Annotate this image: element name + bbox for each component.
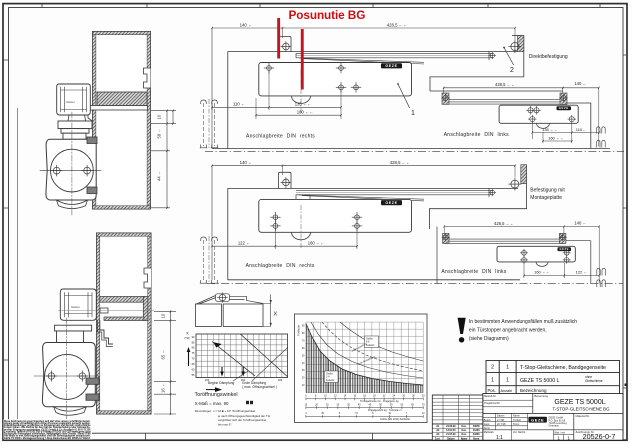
svg-text:122 ←: 122 ←: [238, 241, 250, 246]
svg-text:GEZE TS 5000 L: GEZE TS 5000 L: [520, 378, 560, 384]
svg-text:180: 180: [278, 378, 283, 382]
hinge detail with X dimension: [195, 292, 277, 326]
svg-text:Norm: Norm: [484, 427, 490, 430]
svg-text:2.7.98: 2.7.98: [497, 419, 505, 422]
plan view 4: DIN links with Montageplatte: [437, 220, 605, 287]
svg-text:58 ←: 58 ←: [157, 128, 162, 138]
svg-text:44 ←: 44 ←: [157, 171, 162, 181]
svg-text:65 ←: 65 ←: [161, 349, 166, 359]
svg-text:GEZE: GEZE: [559, 106, 569, 110]
svg-text:Kus.: Kus.: [462, 425, 468, 428]
svg-text:vergrößert sich der Toröffnung: vergrößert sich der Toröffnungswinkel: [218, 418, 266, 422]
svg-text:1: 1: [491, 378, 494, 384]
svg-text:je nach Öffnungsgeschwindigkei: je nach Öffnungsgeschwindigkeit der Tür: [217, 414, 270, 418]
svg-text:( max. Öffnungswinkel ): ( max. Öffnungswinkel ): [242, 385, 277, 389]
svg-text:bis max 5°: bis max 5°: [218, 423, 232, 427]
svg-text:Projekt/Archit.: Projekt/Archit.: [484, 401, 500, 405]
svg-text:T-Stop-Gleitschiene, Bandgege: T-Stop-Gleitschiene, Bandgegenseite: [520, 365, 606, 371]
svg-text:110←: 110←: [576, 127, 586, 132]
svg-text:428,5 ←←: 428,5 ←←: [494, 221, 514, 226]
svg-text:122 ←: 122 ←: [576, 269, 588, 274]
svg-text:428,5 ←←: 428,5 ←←: [387, 23, 408, 28]
svg-text:428,5 ←←: 428,5 ←←: [495, 82, 515, 87]
svg-text:160 ←←: 160 ←←: [534, 269, 550, 274]
wire: horizontal separator under middle plan views: [228, 279, 520, 281]
red marker line left: [277, 18, 280, 59]
plan view 3: DIN rechts with Montageplatte: [200, 160, 566, 284]
svg-text:135 ←←: 135 ←←: [295, 102, 312, 107]
svg-text:Germany: Germany: [549, 425, 560, 428]
svg-text:Zust.: Zust.: [435, 438, 441, 441]
svg-text:T-STOP-GLEITSCHIENE BG: T-STOP-GLEITSCHIENE BG: [552, 407, 610, 412]
section view A: closer mounted on frame (top left): [40, 32, 151, 216]
svg-text:Bezeichnung: Bezeichnung: [520, 388, 547, 393]
svg-text:Maßstab: Maßstab: [484, 431, 494, 434]
svg-text:X: X: [274, 312, 278, 318]
svg-text:Kus.: Kus.: [462, 433, 468, 436]
svg-text:X: X: [186, 331, 189, 336]
svg-text:Direktbefestigung: Direktbefestigung: [529, 54, 568, 60]
svg-text:1:1: 1:1: [496, 435, 503, 441]
copyright fine print block: [4, 419, 93, 440]
svg-text:(°90): (°90): [185, 337, 190, 340]
svg-text:GEZE: GEZE: [385, 201, 397, 205]
svg-text:428,5 ←←: 428,5 ←←: [390, 160, 411, 165]
svg-text:160 ←←: 160 ←←: [297, 110, 314, 115]
svg-text:135 ←←: 135 ←←: [542, 127, 558, 132]
svg-text:140 ←: 140 ←: [574, 220, 586, 225]
svg-text:2: 2: [491, 365, 494, 371]
svg-text:41800: 41800: [473, 433, 480, 436]
wire: left margin extension line: [17, 108, 19, 420]
svg-text:Türblattbr.: Türblattbr.: [297, 324, 301, 336]
svg-text:Federkr.: Federkr.: [366, 344, 375, 347]
svg-text:Beginn Dämpfung: Beginn Dämpfung: [208, 381, 235, 385]
section view B: closer mounted on door (bottom left): [34, 233, 151, 422]
dimension chain 10 / 58 / 44 (view A): [151, 111, 176, 208]
svg-text:16 ←: 16 ←: [161, 383, 166, 393]
svg-text:Anzahl: Anzahl: [501, 389, 513, 393]
svg-text:TrnSch: TrnSch: [513, 419, 522, 422]
svg-text:ein Türstopper angebracht w: ein Türstopper angebracht werden,: [469, 328, 547, 334]
svg-text:10: 10: [161, 313, 166, 318]
title block: [483, 394, 623, 442]
svg-text:Gleiter: Gleiter: [66, 100, 75, 104]
svg-text:Kus.: Kus.: [462, 429, 468, 432]
svg-text:Norm: Norm: [473, 438, 479, 441]
svg-text:Name: Name: [461, 438, 468, 441]
svg-text:GEZE: GEZE: [560, 247, 569, 251]
svg-text:140 ←: 140 ←: [240, 160, 253, 165]
svg-text:2: 2: [510, 67, 514, 74]
plan view 1: TS5000 with slide rail, Anschlagbreite DIN rechts: [200, 23, 524, 149]
wire: horizontal separator under top plan views: [212, 148, 610, 150]
svg-text:Federkr.: Federkr.: [326, 379, 335, 382]
svg-text:40678: 40678: [473, 425, 480, 428]
svg-text:GEZE: GEZE: [385, 64, 397, 68]
revision history table: [432, 395, 483, 441]
svg-text:Gleiter: Gleiter: [71, 305, 80, 309]
parts list table: [486, 360, 627, 394]
svg-text:160 ←←: 160 ←←: [548, 135, 564, 140]
svg-text:Blatt / von: Blatt / von: [555, 432, 566, 435]
svg-text:Lfd. Nachtr.: Lfd. Nachtr.: [513, 431, 526, 434]
svg-text:Toröffnungswinkel: Toröffnungswinkel: [195, 392, 238, 398]
svg-text:1: 1: [411, 110, 415, 117]
svg-text:20526-0-7: 20526-0-7: [583, 432, 616, 441]
svg-text:Name: Name: [513, 415, 520, 418]
svg-text:Timm: Timm: [513, 423, 519, 426]
svg-text:140 ←: 140 ←: [240, 23, 253, 28]
red marker line right: [301, 29, 304, 90]
svg-text:Benennung: Benennung: [535, 394, 549, 398]
svg-text:Posunutie BG: Posunutie BG: [289, 8, 366, 22]
svg-text:Anschlagbreite DIN links: Anschlagbreite DIN links: [441, 269, 506, 275]
svg-text:21.07.00: 21.07.00: [446, 433, 456, 436]
plan view 2: Anschlagbreite DIN links, Direktbefestigung: [430, 47, 605, 149]
svg-text:Klemmbügel : x = 10 ■ + 10° T: Klemmbügel : x = 10 ■ + 10° Toröffnungsw…: [195, 409, 256, 413]
svg-text:Bestell-Nr.: Bestell-Nr.: [484, 394, 496, 398]
svg-text:13.01.00: 13.01.00: [446, 429, 456, 432]
chart: closer size vs door width (large, hatched): [295, 314, 428, 423]
svg-text:20.7.98: 20.7.98: [497, 423, 506, 426]
wire: dash-dot fold line lower: [207, 283, 623, 285]
svg-text:Befestigung mit: Befestigung mit: [530, 188, 565, 194]
wire: dash-dot fold line upper: [205, 151, 624, 153]
svg-text:X-Maß = max. 90: X-Maß = max. 90: [195, 401, 229, 406]
svg-text:Größe (EN 1154) Schließkr.: Größe (EN 1154) Schließkr.: [380, 418, 411, 421]
svg-text:Datum: Datum: [497, 415, 504, 418]
svg-text:Pos.: Pos.: [488, 388, 496, 393]
svg-text:Montageplatte: Montageplatte: [530, 195, 562, 201]
svg-text:1: 1: [506, 365, 509, 371]
svg-text:Datum: Datum: [447, 438, 454, 441]
svg-text:Anschlagbreite DIN rechts: Anschlagbreite DIN rechts: [246, 134, 315, 140]
svg-text:1: 1: [506, 378, 509, 384]
svg-text:140 ←: 140 ←: [574, 81, 586, 86]
dimension chain 10 / 65 / 16 (view B): [154, 311, 176, 414]
svg-text:Gleitschiene: Gleitschiene: [585, 379, 603, 383]
warning note with exclamation mark: [458, 318, 578, 343]
svg-text:Material Nr.: Material Nr.: [576, 414, 591, 418]
svg-text:24.06.99: 24.06.99: [446, 425, 456, 428]
svg-text:GEZE: GEZE: [531, 417, 544, 422]
svg-text:110 ←: 110 ←: [233, 102, 245, 107]
svg-text:GEZE TS 5000 L Montagezeichnun: GEZE TS 5000 L Montagezeichnung T-Stop-G…: [4, 437, 91, 440]
svg-text:In bestimmten Anwendungsfäll: In bestimmten Anwendungsfällen muß zusät…: [469, 319, 577, 325]
svg-text:Bearb.: Bearb.: [484, 419, 492, 422]
svg-text:(siehe Diagramm): (siehe Diagramm): [469, 336, 509, 342]
chart: damping zones vs door opening angle: [185, 331, 288, 427]
svg-text:Gepr.: Gepr.: [484, 423, 490, 426]
svg-text:Anschlagbreite DIN links: Anschlagbreite DIN links: [444, 132, 509, 138]
svg-text:160 ←←: 160 ←←: [308, 241, 325, 246]
svg-text:41203: 41203: [473, 429, 480, 432]
svg-text:GEZE TS 5000L: GEZE TS 5000L: [554, 399, 605, 406]
svg-text:10: 10: [157, 114, 162, 119]
svg-text:Anschlagbreite DIN rechts: Anschlagbreite DIN rechts: [246, 263, 315, 269]
